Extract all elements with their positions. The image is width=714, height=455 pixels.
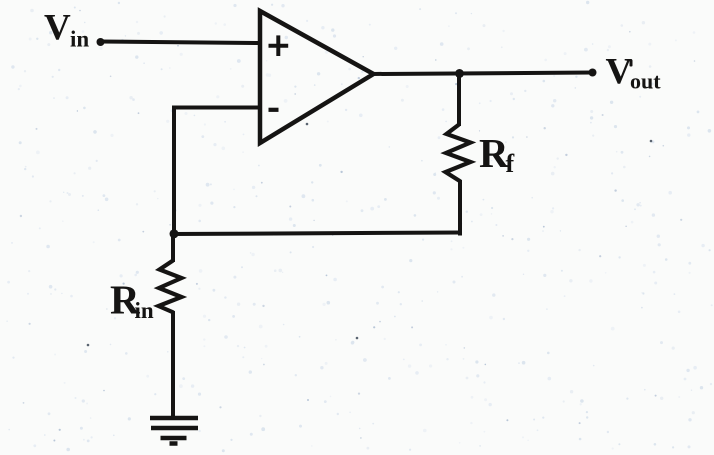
op-amp U1 bbox=[260, 11, 374, 143]
node input dot bbox=[97, 38, 105, 46]
wire inverting input horizontal bbox=[172, 106, 260, 110]
svg-text:f: f bbox=[506, 149, 515, 178]
node output terminal dot bbox=[589, 69, 597, 77]
wire Rf bottom bbox=[458, 180, 462, 236]
op-amp plus input marking bbox=[269, 35, 289, 56]
resistor Rf bbox=[446, 125, 471, 182]
wire Rf top bbox=[457, 74, 461, 127]
svg-text:out: out bbox=[630, 69, 661, 94]
svg-text:V: V bbox=[44, 8, 71, 49]
svg-text:in: in bbox=[135, 298, 154, 323]
wire Vin input bbox=[100, 42, 259, 44]
node feedback junction dot bbox=[170, 229, 179, 238]
ground bbox=[150, 418, 198, 444]
op-amp minus input marking bbox=[269, 108, 279, 112]
node output junction dot bbox=[455, 69, 464, 78]
wire output bbox=[372, 73, 593, 75]
wire feedback horizontal bbox=[172, 233, 462, 235]
svg-text:V: V bbox=[606, 52, 633, 93]
wire Rin bottom bbox=[171, 311, 175, 417]
svg-text:R: R bbox=[479, 130, 509, 176]
resistor Rin bbox=[159, 261, 182, 313]
wire inverting input vertical down bbox=[172, 106, 176, 236]
svg-text:in: in bbox=[70, 27, 89, 52]
wire Rin top bbox=[171, 233, 175, 262]
